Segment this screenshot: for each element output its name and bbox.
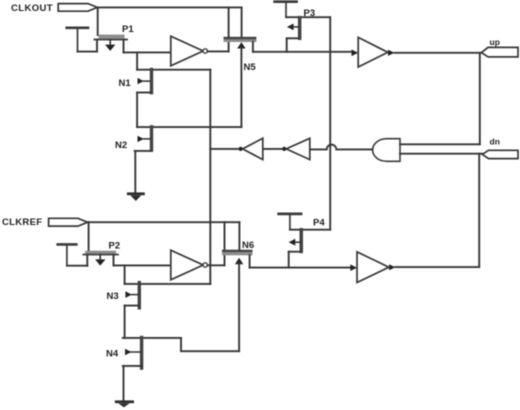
wire N6 drain stub right [249,255,251,267]
output pin dn [482,150,518,158]
wire U2 output to N6 source [208,264,225,266]
transistor P2 [83,251,118,266]
transistor N5 [224,37,257,49]
power VDD symbol for P1 [67,28,88,52]
svg-text:P3: P3 [304,8,316,19]
wire node A down to N1 drain [136,52,138,69]
wire U1 output to N5 source [208,50,229,52]
power VDD symbol for P4 [279,214,301,230]
svg-text:N1: N1 [119,78,132,89]
AND gate U5 [373,139,400,162]
wire P3 top [286,16,330,18]
svg-text:N6: N6 [242,240,254,251]
wire N2 source to ground [134,151,136,193]
svg-text:CLKREF: CLKREF [2,217,42,228]
junction arrow into dn buffer [350,264,357,271]
svg-text:P4: P4 [313,217,325,228]
wire CLKOUT to P1 gate [97,7,99,35]
input pin CLKOUT [58,4,97,12]
wire reset net vertical P3 to P4 [329,17,331,230]
wire CLKREF to N6 drain left [224,222,226,250]
wire up buffer output to up pin [395,52,482,54]
svg-text:N3: N3 [107,291,119,302]
svg-text:N4: N4 [106,348,119,359]
svg-text:N5: N5 [244,62,257,73]
wire N5 to up buffer [253,51,351,53]
wire N6 gate jog to N4 drain [181,338,239,351]
wire U7 to U6 [263,148,282,150]
wire dn node down to dn buffer output [478,154,480,267]
wire CLKOUT to N5 drain left [228,7,230,37]
wire P4 top [290,229,330,231]
wire P1 drain to inverter U1 input [124,51,171,53]
wire N5 drain stub right [252,42,254,52]
wire N1 source to N2 drain [136,93,138,128]
transistor N2 [135,125,242,152]
svg-text:CLKOUT: CLKOUT [11,3,53,14]
svg-text:P1: P1 [122,24,134,35]
wire N5 source stub [228,42,230,52]
power VDD symbol for P2 [58,244,77,265]
wire N6 source stub [224,255,226,265]
transistor P3 [287,16,302,52]
wire feedback vertical N1 drain to N3 drain [209,70,211,284]
svg-text:dn: dn [490,136,500,146]
svg-text:up: up [490,37,500,47]
wire CLKREF to N6 drain right [238,222,240,250]
wire N6 gate down [238,263,240,351]
wire CLKOUT top [98,6,242,8]
wire AND input A [400,143,480,145]
wire AND output with hop [310,145,373,150]
wire VDD to P2 source [67,265,87,267]
wire N3 source to N4 drain [124,306,126,338]
wire N4 source to ground [123,366,125,401]
wire N6 to dn buffer [250,267,351,269]
buffer U3 up [358,37,394,67]
wire dn buffer output [395,266,479,268]
wire CLKOUT to N5 drain right [241,7,243,37]
wire AND input B to dn node [400,153,482,155]
transistor P4 [289,228,303,268]
junction arrow into up buffer [352,50,359,57]
inverter U2 [171,250,208,280]
input pin CLKREF [49,218,88,226]
wire N5 gate to N2 drain [240,48,242,128]
transistor N1 [137,68,210,95]
output pin up [482,47,519,57]
transistor N3 [125,281,211,310]
transistor N6 [222,250,253,265]
wire VDD to P1 source [78,51,98,53]
inverter U1 [171,36,208,66]
wire node B down to N3 drain [124,265,126,284]
ground below N2 [127,192,145,201]
wire CLKREF [88,221,240,223]
svg-text:N2: N2 [115,140,127,151]
wire U6 output to feedback net [210,148,238,150]
transistor N4 [123,336,181,370]
wire up node down to AND input A [479,53,481,145]
svg-text:P2: P2 [109,241,121,252]
inverter U6 [239,138,263,159]
power VDD symbol for P3 [275,2,297,18]
ground below N4 [115,400,134,407]
wire CLKREF to P2 gate [88,222,90,251]
inverter U7 [282,138,310,159]
transistor P1 [95,35,128,53]
buffer U4 dn [357,252,395,283]
wire P2 drain to inverter U2 input [114,264,171,266]
